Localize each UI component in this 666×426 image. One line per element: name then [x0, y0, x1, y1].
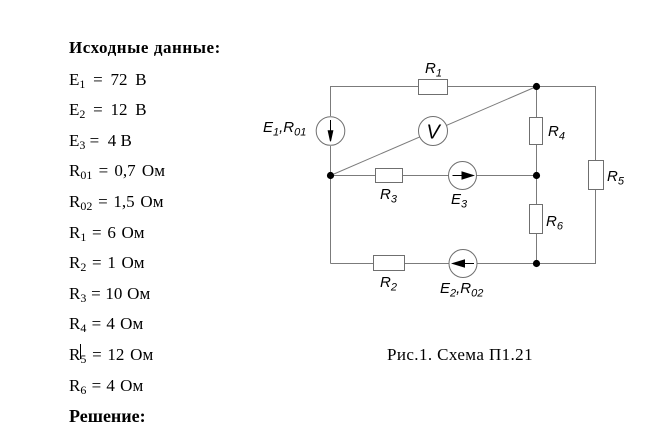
svg-text:R2: R2	[380, 274, 397, 294]
wire right: R5 to bottom-right corner	[536, 190, 596, 264]
svg-text:E2,R02: E2,R02	[440, 280, 483, 300]
wire top-right: R1 to top-right corner	[448, 87, 596, 161]
arrow inside E1 (down)	[328, 120, 333, 141]
resistor R1	[419, 80, 448, 95]
wire branch R4 top	[536, 87, 538, 118]
svg-text:R5: R5	[607, 168, 625, 188]
wire left vertical below E1	[330, 146, 332, 264]
resistor R6	[530, 205, 543, 234]
node bottom junction	[533, 260, 540, 267]
svg-text:E3: E3	[451, 191, 468, 211]
wire bottom-right: E2 to node	[477, 263, 536, 265]
svg-text:R1: R1	[425, 60, 442, 80]
wire bottom-mid: R2 to E2	[405, 263, 449, 265]
data column	[69, 39, 221, 56]
arrow inside E2 (left)	[453, 260, 474, 267]
figure caption	[387, 346, 533, 363]
voltmeter V circle	[419, 117, 448, 146]
svg-text:E1,R01: E1,R01	[263, 119, 306, 139]
resistor R5	[589, 161, 604, 190]
wire branch R6 top	[536, 176, 538, 205]
node B (middle)	[533, 172, 540, 179]
node top-right junction	[533, 83, 540, 90]
svg-text:R3: R3	[380, 186, 398, 206]
arrow inside E3 (right)	[453, 172, 474, 179]
wire diagonal node A to top-right node	[331, 87, 537, 176]
wire branch R4 bottom	[536, 145, 538, 176]
wire middle-right: E3 to node B	[477, 175, 537, 177]
wire middle-mid: R3 to E3	[403, 175, 449, 177]
resistor R3	[376, 169, 403, 183]
source E1 circle	[316, 117, 345, 146]
node A (left middle)	[327, 172, 334, 179]
wire branch R6 bottom	[536, 234, 538, 264]
wire bottom-left: left corner to R2	[331, 263, 374, 265]
svg-text:R4: R4	[548, 123, 565, 143]
resistor R2	[374, 256, 405, 271]
svg-text:R6: R6	[546, 213, 564, 233]
wire top-left: left corner to R1	[331, 87, 419, 117]
source E3 circle	[449, 162, 477, 190]
resistor R4	[530, 118, 543, 145]
wire middle-left: node A to R3	[331, 175, 376, 177]
source E2 circle	[449, 250, 477, 278]
svg-text:V: V	[426, 122, 441, 144]
text cursor caret in R5 line	[80, 344, 81, 359]
